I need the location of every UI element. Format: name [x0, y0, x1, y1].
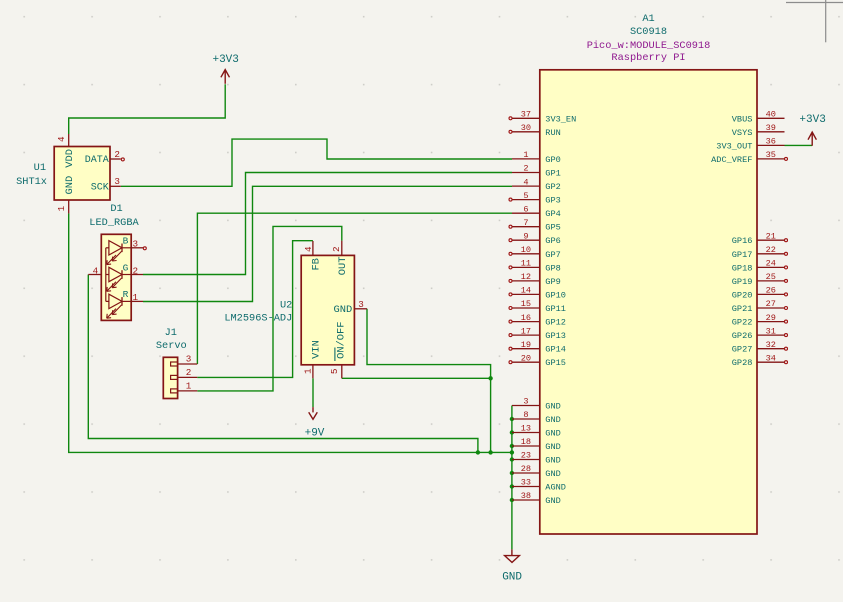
svg-text:RUN: RUN	[545, 128, 560, 138]
A1 pin 6 GP4 (left)	[512, 204, 561, 219]
svg-text:LED_RGBA: LED_RGBA	[89, 217, 139, 229]
svg-text:GP1: GP1	[545, 169, 560, 179]
svg-text:U1: U1	[34, 162, 46, 174]
svg-text:ON/OFF: ON/OFF	[336, 321, 348, 358]
svg-text:18: 18	[521, 437, 531, 447]
svg-text:24: 24	[766, 259, 776, 269]
junction	[510, 457, 514, 461]
svg-text:38: 38	[521, 491, 531, 501]
junction	[510, 498, 514, 502]
junction	[510, 444, 514, 448]
A1 pin 27 GP21 (right)	[732, 299, 788, 314]
svg-text:LM2596S-ADJ: LM2596S-ADJ	[224, 312, 292, 324]
svg-text:GND: GND	[545, 442, 560, 452]
A1 pin 25 GP19 (right)	[732, 272, 788, 287]
svg-text:GND: GND	[545, 402, 560, 412]
svg-text:GND: GND	[545, 415, 560, 425]
svg-text:1: 1	[302, 368, 313, 374]
svg-text:11: 11	[521, 259, 531, 269]
wire D1 pin 4 to ground net	[88, 275, 478, 453]
A1 pin 40 VBUS (right)	[732, 110, 785, 125]
svg-text:B: B	[123, 236, 129, 247]
svg-text:GP14: GP14	[545, 345, 566, 355]
svg-text:35: 35	[766, 150, 776, 160]
A1 pin 15 GP11 (left)	[509, 299, 566, 314]
D1 common anode bus	[105, 248, 107, 302]
svg-text:GP21: GP21	[732, 304, 753, 314]
connector J1 Servo body	[163, 357, 177, 398]
svg-text:1: 1	[133, 292, 139, 303]
svg-text:3: 3	[186, 354, 192, 365]
svg-text:15: 15	[521, 299, 531, 309]
svg-text:14: 14	[521, 286, 531, 296]
A1 pin 22 GP17 (right)	[732, 245, 788, 260]
svg-text:GND: GND	[545, 429, 560, 439]
svg-text:25: 25	[766, 272, 776, 282]
svg-text:GP8: GP8	[545, 263, 560, 273]
svg-text:4: 4	[93, 265, 99, 276]
junction	[510, 471, 514, 475]
wire A1 ground bus	[511, 406, 513, 550]
A1 pin 17 GP13 (left)	[509, 326, 566, 341]
wire J1 pin 1 to U2 OUT	[197, 226, 341, 391]
A1 pin 33 AGND (left)	[512, 478, 566, 493]
A1 pin 24 GP18 (right)	[732, 259, 788, 274]
A1 pin 20 GP15 (left)	[509, 353, 566, 368]
svg-text:GP20: GP20	[732, 290, 753, 300]
wire U1 GND pin 1 to ground bus	[69, 213, 512, 452]
svg-text:23: 23	[521, 451, 531, 461]
U1 pin 4 VDD (top)	[56, 134, 76, 168]
U2 pin 5 ON/OFF inverted (bottom)	[329, 321, 348, 378]
power symbol +3V3 (top left)	[212, 54, 238, 84]
svg-text:Pico_w:MODULE_SC0918: Pico_w:MODULE_SC0918	[587, 40, 711, 52]
svg-text:GP7: GP7	[545, 250, 560, 260]
A1 pin 19 GP14 (left)	[509, 340, 566, 355]
svg-text:Servo: Servo	[156, 340, 187, 352]
svg-text:36: 36	[766, 137, 776, 147]
svg-text:20: 20	[521, 353, 531, 363]
A1 pin 16 GP12 (left)	[509, 313, 566, 328]
svg-text:GP11: GP11	[545, 304, 566, 314]
svg-text:GP17: GP17	[732, 250, 753, 260]
svg-text:19: 19	[521, 340, 531, 350]
svg-text:40: 40	[766, 110, 776, 120]
svg-text:A1: A1	[642, 13, 654, 25]
svg-text:5: 5	[523, 191, 528, 201]
svg-text:VIN: VIN	[311, 340, 323, 359]
svg-text:GP28: GP28	[732, 358, 753, 368]
svg-text:GP13: GP13	[545, 331, 566, 341]
wire U2 GND pin 3 down to ground net	[367, 309, 491, 453]
svg-text:3: 3	[114, 176, 120, 187]
A1 pin 30 RUN (left)	[509, 123, 561, 138]
svg-text:+3V3: +3V3	[799, 114, 825, 126]
svg-text:VDD: VDD	[64, 149, 76, 168]
svg-text:GP4: GP4	[545, 209, 560, 219]
D1 LED G (pin 2)	[106, 262, 143, 291]
svg-text:12: 12	[521, 272, 531, 282]
svg-text:DATA: DATA	[85, 155, 109, 166]
svg-text:J1: J1	[165, 327, 177, 339]
A1 pin 8 GND (left)	[512, 410, 561, 425]
wire J1 pin 2 to U2 FB	[197, 241, 313, 378]
svg-text:30: 30	[521, 123, 531, 133]
module A1 Raspberry Pi Pico body	[540, 70, 757, 534]
U1 pin 1 GND (bottom)	[56, 176, 76, 214]
svg-text:AGND: AGND	[545, 483, 566, 493]
A1 pin 34 GP28 (right)	[732, 353, 788, 368]
A1 pin 26 GP20 (right)	[732, 286, 788, 301]
svg-text:GP9: GP9	[545, 277, 560, 287]
svg-text:2: 2	[114, 149, 120, 160]
junction	[510, 450, 514, 454]
svg-text:GND: GND	[64, 176, 76, 195]
U2 pin 1 VIN (bottom)	[302, 340, 322, 378]
A1 pin 38 GND (left)	[512, 491, 561, 506]
svg-text:GP10: GP10	[545, 290, 566, 300]
wire A1 3V3_OUT to +3V3 power	[785, 144, 813, 146]
svg-text:4: 4	[523, 177, 528, 187]
J1 pin 2	[171, 367, 198, 379]
svg-text:SC0918: SC0918	[630, 26, 667, 38]
svg-text:17: 17	[521, 326, 531, 336]
A1 pin 14 GP10 (left)	[509, 286, 566, 301]
A1 pin 36 3V3_OUT (right)	[716, 137, 784, 152]
A1 pin 10 GP7 (left)	[509, 245, 561, 260]
A1 pin 37 3V3_EN (left)	[509, 110, 576, 125]
A1 pin 2 GP1 (left)	[512, 164, 561, 179]
A1 pin 7 GP5 (left)	[509, 218, 561, 233]
svg-text:13: 13	[521, 424, 531, 434]
svg-text:31: 31	[766, 326, 776, 336]
svg-text:SHT1x: SHT1x	[16, 176, 47, 188]
svg-text:GP3: GP3	[545, 196, 560, 206]
svg-text:Raspberry PI: Raspberry PI	[611, 52, 685, 64]
wire U2 VIN to +9V power	[312, 378, 314, 407]
svg-text:7: 7	[523, 218, 528, 228]
svg-text:2: 2	[331, 246, 342, 252]
svg-text:4: 4	[56, 136, 67, 142]
A1 pin 23 GND (left)	[512, 451, 561, 466]
svg-text:OUT: OUT	[337, 257, 349, 276]
junction	[488, 376, 492, 380]
svg-text:32: 32	[766, 340, 776, 350]
svg-text:ADC_VREF: ADC_VREF	[711, 155, 752, 165]
A1 pin 28 GND (left)	[512, 464, 561, 479]
LED D1 LED_RGBA body	[101, 234, 131, 320]
svg-text:5: 5	[329, 369, 340, 375]
wire A1 GP1 to D1 G pin 2	[143, 173, 512, 275]
ground symbol GND (bottom)	[502, 549, 522, 583]
svg-text:GP16: GP16	[732, 236, 753, 246]
svg-text:6: 6	[523, 204, 528, 214]
svg-text:16: 16	[521, 313, 531, 323]
svg-text:33: 33	[521, 478, 531, 488]
A1 pin 21 GP16 (right)	[732, 231, 788, 246]
A1 pin 18 GND (left)	[512, 437, 561, 452]
svg-text:21: 21	[766, 231, 776, 241]
junction	[510, 417, 514, 421]
A1 pin 3 GND (left)	[512, 397, 561, 412]
A1 pin 11 GP8 (left)	[509, 259, 561, 274]
A1 pin 5 GP3 (left)	[509, 191, 561, 206]
svg-text:GP15: GP15	[545, 358, 566, 368]
svg-text:FB: FB	[311, 258, 323, 270]
svg-text:39: 39	[766, 123, 776, 133]
svg-text:GND: GND	[333, 304, 352, 316]
A1 pin 12 GP9 (left)	[509, 272, 561, 287]
wire A1 GP4 to J1 pin 3	[197, 213, 512, 364]
svg-text:29: 29	[766, 313, 776, 323]
svg-text:GND: GND	[545, 456, 560, 466]
svg-text:1: 1	[186, 381, 192, 392]
sensor U1 SHT1x body	[54, 147, 110, 201]
D1 LED R (pin 1)	[106, 289, 143, 318]
svg-text:1: 1	[56, 205, 67, 211]
svg-text:9: 9	[523, 231, 528, 241]
U2 pin 2 OUT (top)	[331, 241, 349, 276]
svg-text:10: 10	[521, 245, 531, 255]
J1 pin 3	[171, 354, 198, 366]
U1 pin 3 SCK	[91, 176, 121, 193]
A1 pin 39 VSYS (right)	[732, 123, 785, 138]
J1 pin 1	[171, 381, 198, 393]
power symbol +3V3 (right of A1)	[799, 114, 825, 146]
A1 pin 35 ADC_VREF (right)	[711, 150, 787, 165]
svg-text:GND: GND	[545, 469, 560, 479]
svg-text:GP26: GP26	[732, 331, 753, 341]
junction	[510, 430, 514, 434]
A1 pin 32 GP27 (right)	[732, 340, 788, 355]
U2 pin 4 FB (top)	[303, 241, 322, 271]
svg-text:U2: U2	[280, 300, 292, 312]
A1 pin 13 GND (left)	[512, 424, 561, 439]
svg-text:R: R	[123, 289, 129, 300]
svg-text:3V3_OUT: 3V3_OUT	[716, 141, 752, 151]
svg-text:3: 3	[133, 239, 139, 250]
wire U1 SCK to A1 GP0	[121, 139, 512, 186]
svg-text:1: 1	[523, 150, 528, 160]
U1 pin 2 DATA (unconnected)	[85, 149, 125, 166]
svg-text:GP0: GP0	[545, 155, 560, 165]
A1 pin 9 GP6 (left)	[509, 231, 561, 246]
svg-text:+9V: +9V	[305, 428, 325, 440]
svg-text:37: 37	[521, 110, 531, 120]
svg-text:2: 2	[133, 265, 139, 276]
svg-text:2: 2	[523, 164, 528, 174]
svg-text:GP27: GP27	[732, 345, 753, 355]
regulator U2 LM2596S-ADJ body	[301, 255, 354, 364]
svg-text:34: 34	[766, 353, 776, 363]
svg-text:+3V3: +3V3	[212, 54, 238, 66]
svg-text:GP22: GP22	[732, 318, 753, 328]
svg-text:4: 4	[303, 246, 314, 252]
A1 pin 29 GP22 (right)	[732, 313, 788, 328]
svg-text:VBUS: VBUS	[732, 114, 753, 124]
svg-text:GP19: GP19	[732, 277, 753, 287]
svg-text:2: 2	[186, 367, 192, 378]
A1 pin 31 GP26 (right)	[732, 326, 788, 341]
D1 pin 4 common anode stub	[88, 265, 101, 276]
svg-text:26: 26	[766, 286, 776, 296]
svg-text:27: 27	[766, 299, 776, 309]
svg-text:VSYS: VSYS	[732, 128, 753, 138]
svg-text:G: G	[123, 262, 129, 273]
wire A1 GP2 to D1 R pin 1	[143, 186, 512, 301]
wire U1 VDD to +3V3 power	[69, 84, 226, 134]
svg-text:8: 8	[523, 410, 528, 420]
U2 pin 3 GND (right)	[333, 299, 367, 316]
svg-text:GND: GND	[545, 496, 560, 506]
svg-text:GND: GND	[502, 572, 522, 584]
svg-text:SCK: SCK	[91, 183, 109, 194]
svg-text:GP5: GP5	[545, 223, 560, 233]
svg-text:3V3_EN: 3V3_EN	[545, 114, 576, 124]
wire U2 ON/OFF pin 5 to ground net	[342, 377, 491, 379]
power symbol +9V (below U2, pointing down)	[305, 407, 325, 440]
svg-text:28: 28	[521, 464, 531, 474]
junction	[510, 484, 514, 488]
svg-text:GP6: GP6	[545, 236, 560, 246]
svg-text:3: 3	[358, 299, 364, 310]
junction	[476, 450, 480, 454]
svg-text:GP18: GP18	[732, 263, 753, 273]
junction	[488, 450, 492, 454]
D1 LED B (pin 3)	[106, 236, 143, 265]
svg-text:D1: D1	[110, 203, 122, 215]
svg-text:GP2: GP2	[545, 182, 560, 192]
A1 pin 1 GP0 (left)	[512, 150, 561, 165]
svg-text:22: 22	[766, 245, 776, 255]
A1 pin 4 GP2 (left)	[512, 177, 561, 192]
D1 pin 3 unconnected circle	[143, 247, 146, 250]
svg-text:3: 3	[523, 397, 528, 407]
svg-text:GP12: GP12	[545, 318, 566, 328]
